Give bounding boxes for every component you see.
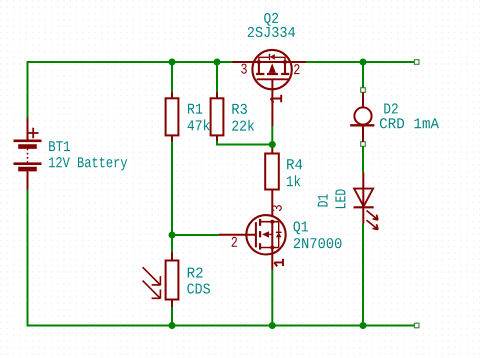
- junction bottom rail R2: [169, 322, 176, 329]
- value 2N7000: [294, 238, 342, 248]
- junction gate node R1/R2: [169, 232, 176, 239]
- value LED (rotated): [335, 189, 345, 208]
- junction top rail D branch: [360, 59, 367, 66]
- wire LED bottom to rail: [362, 224, 364, 326]
- label R2: [188, 267, 203, 277]
- pin 3 Q2: [241, 64, 247, 74]
- label BT1: [49, 141, 70, 151]
- label R1: [188, 104, 202, 114]
- diode D2 (CRD): [350, 93, 374, 143]
- wire D2 to LED: [362, 146, 364, 173]
- wire top rail left segment: [28, 62, 234, 118]
- battery BT1: [14, 118, 42, 190]
- junction top rail R1: [169, 59, 176, 66]
- pin end square D2 bottom: [361, 142, 366, 147]
- junction bottom rail Q1: [269, 322, 276, 329]
- pin 2 Q1: [232, 237, 237, 247]
- wire R1 bottom to R2 top: [171, 142, 173, 253]
- label R4: [287, 159, 302, 169]
- transistor Q2 (P-MOSFET 2SJ334): [233, 50, 307, 126]
- transistor Q1 (N-MOSFET 2N7000): [219, 215, 286, 269]
- photoresistor R2: [143, 253, 179, 308]
- junction top rail R3: [214, 59, 221, 66]
- pin 3 Q1 (rotated): [272, 205, 282, 211]
- label Q1: [293, 221, 308, 234]
- resistor R1: [166, 93, 179, 142]
- junction node gate Q2 / R3 / R4: [269, 141, 276, 148]
- resistor R4: [265, 149, 279, 222]
- wire R3 top: [216, 62, 218, 93]
- value 12V Battery: [49, 157, 127, 170]
- wire Q2 gate to node: [271, 126, 273, 145]
- wire R2 bottom: [171, 307, 173, 326]
- pin end square D2 top: [361, 88, 366, 93]
- resistor R3: [211, 93, 224, 141]
- wire left drop lower (battery -) and bottom rail: [28, 190, 416, 326]
- wire R3 bottom bend to node: [217, 141, 272, 145]
- label D1 (rotated): [318, 194, 328, 206]
- label R3: [232, 104, 247, 114]
- wire R1 top: [171, 62, 173, 93]
- value 47k: [188, 119, 210, 130]
- wire end square bottom right: [414, 323, 419, 328]
- value 2SJ334: [248, 27, 295, 37]
- value CRD 1mA: [380, 118, 439, 128]
- wire end square top right: [414, 60, 419, 65]
- value 22k: [232, 120, 254, 131]
- value 1k: [287, 175, 300, 186]
- wire top rail right segment: [306, 61, 415, 63]
- junction bottom rail LED: [360, 322, 367, 329]
- pin 1 Q1 (rotated): [274, 259, 283, 267]
- wire D branch top: [362, 62, 364, 88]
- value CDS: [187, 283, 210, 293]
- LED D1: [354, 173, 379, 230]
- label Q2: [264, 13, 278, 26]
- wire Q1 source to bottom rail: [271, 270, 273, 326]
- wire node to R4 top: [271, 145, 273, 149]
- wire gate node to Q1 gate: [172, 234, 219, 236]
- pin 2 Q2: [294, 64, 299, 74]
- pin 1 Q2 (rotated): [271, 95, 282, 103]
- label D2: [384, 103, 397, 113]
